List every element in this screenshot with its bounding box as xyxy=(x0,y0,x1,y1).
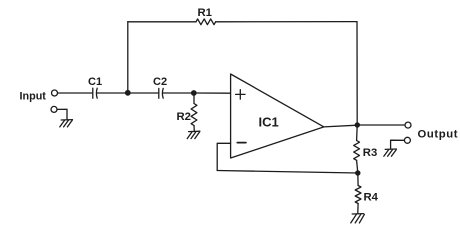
wire output node down to R3 xyxy=(356,125,359,141)
wire input to C1 xyxy=(58,92,93,94)
svg-text:Input: Input xyxy=(20,91,47,103)
output node (R3/output junction) xyxy=(355,122,360,127)
op-amp IC1 triangle xyxy=(231,74,324,158)
svg-text:IC1: IC1 xyxy=(259,115,279,130)
output terminal J2 upper xyxy=(405,122,411,128)
node A (C1/C2/R1 junction) xyxy=(125,90,131,96)
wire lower output terminal to ground xyxy=(391,140,405,149)
op-amp + input symbol xyxy=(236,90,245,99)
wire right rail down to output node xyxy=(356,22,358,125)
input terminal J1 upper xyxy=(52,90,58,96)
svg-text:C2: C2 xyxy=(153,76,167,88)
wire bottom feedback rail xyxy=(217,171,358,174)
resistor R1 xyxy=(196,19,216,25)
op-amp - input symbol xyxy=(237,142,246,144)
resistor R4 xyxy=(355,186,361,204)
svg-text:R3: R3 xyxy=(363,147,377,159)
wire C2 to node B xyxy=(163,92,194,94)
ground below R4 xyxy=(351,214,365,223)
capacitor C1 xyxy=(93,88,97,98)
node C (R3/R4/feedback junction) xyxy=(355,170,360,175)
svg-text:Output: Output xyxy=(418,129,459,141)
output terminal J2 lower xyxy=(404,137,410,143)
wire node B down to R2 xyxy=(193,93,195,104)
wire output node to terminal xyxy=(357,124,405,126)
wire node A up to top rail xyxy=(127,22,129,93)
svg-text:R1: R1 xyxy=(198,7,212,19)
resistor R3 xyxy=(354,141,360,161)
wire op-amp - input feedback xyxy=(217,143,230,170)
wire R3 to node C xyxy=(357,160,358,173)
wire lower input terminal to ground xyxy=(57,109,67,119)
node B (C2/R2/+input junction) xyxy=(191,90,197,96)
resistor R2 xyxy=(191,104,197,126)
input terminal J1 lower xyxy=(51,106,57,112)
wire R4 to ground xyxy=(357,204,359,214)
ground at output xyxy=(384,149,397,156)
wire node A to C2 xyxy=(128,92,159,94)
wire op-amp output xyxy=(324,125,357,127)
ground below input xyxy=(60,120,73,127)
svg-text:C1: C1 xyxy=(88,76,102,88)
wire node C down to R4 xyxy=(357,173,359,186)
wire C1 to node A xyxy=(97,92,128,94)
wire node B to op-amp + input xyxy=(194,92,231,94)
svg-text:R4: R4 xyxy=(364,192,379,204)
capacitor C2 xyxy=(159,88,163,98)
wire R2 to ground xyxy=(193,126,195,132)
ground below R2 xyxy=(187,131,200,138)
svg-text:R2: R2 xyxy=(177,111,191,123)
wire top rail left segment xyxy=(128,21,196,23)
wire top rail right segment xyxy=(216,21,357,23)
